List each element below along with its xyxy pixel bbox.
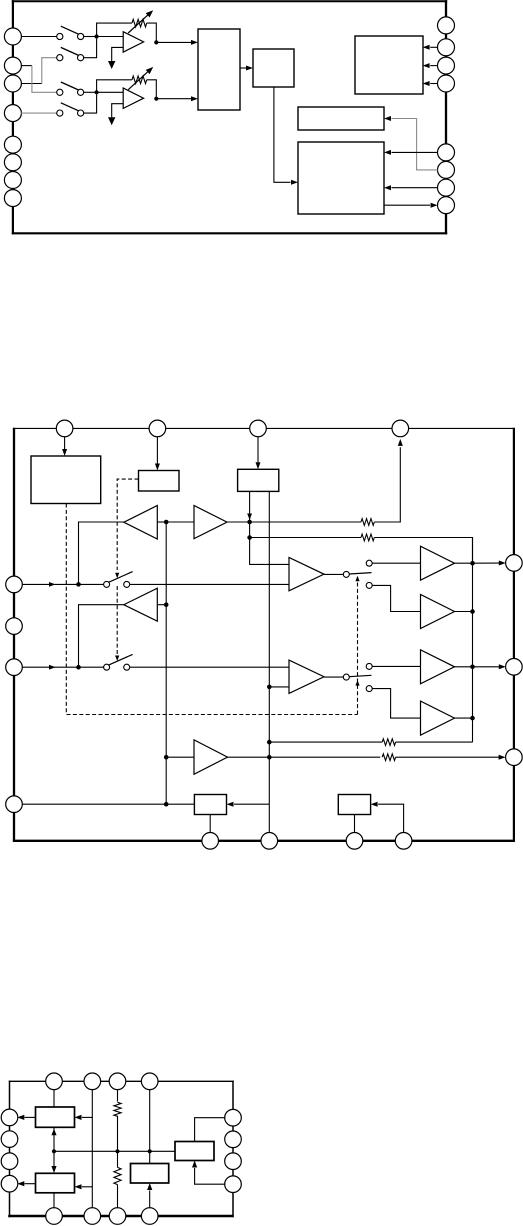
SPDT SW4 upper throw contact bbox=[366, 663, 372, 669]
wire U12 output through resistor R4 to pin R3 bbox=[228, 756, 381, 758]
pin R1 (diagram 3 right) bbox=[225, 1109, 242, 1126]
wire S4 to node N2 bbox=[83, 94, 96, 113]
wire pin T3 to block H bbox=[257, 437, 259, 463]
pin R2 (diagram 2 right) bbox=[506, 659, 523, 676]
block G bbox=[139, 471, 180, 492]
wire node N8 through resistor R1 to pin T4 bbox=[250, 521, 361, 523]
wire pin T3 to resistor R5 bbox=[117, 1089, 119, 1101]
wire to pin B2 bbox=[268, 804, 270, 833]
diagram 2: record/playback signal path border bbox=[13, 428, 15, 842]
pin B4 (diagram 3 bottom) bbox=[141, 1208, 158, 1225]
node N9 junction bbox=[164, 602, 169, 607]
line amp U4 bbox=[289, 660, 324, 693]
node N16 junction bbox=[267, 755, 272, 760]
node N20 junction bbox=[52, 1149, 56, 1153]
buffer U5 (left-pointing) bbox=[124, 506, 158, 540]
block B bbox=[253, 49, 294, 87]
switch S5 bbox=[104, 581, 110, 587]
wire pin T4 to block M bbox=[149, 1089, 151, 1163]
wire block K to pin L1 bbox=[25, 1116, 36, 1118]
pin R3 (diagram 1 right) bbox=[438, 57, 455, 74]
wire U4 output to SPDT pole bbox=[324, 676, 344, 678]
switch S2 bbox=[57, 55, 63, 61]
SPDT SW3 lever bbox=[349, 573, 371, 574]
wire block E to pin R8 bbox=[384, 204, 430, 206]
horizontal bus wire bbox=[54, 1150, 175, 1152]
node N6 junction bbox=[76, 665, 81, 670]
resistor R1 bbox=[361, 519, 374, 526]
pin L4 (diagram 2 left) bbox=[6, 796, 23, 813]
output amp U9 bbox=[421, 595, 455, 629]
wire block A to block B bbox=[240, 67, 246, 69]
ground arrow U1 bbox=[108, 61, 115, 69]
pin T1 (diagram 2 top) bbox=[56, 420, 73, 437]
wire block K to bus and block L bbox=[53, 1127, 55, 1167]
SPDT SW4 lower throw contact bbox=[366, 686, 372, 692]
arrow into block K bottom bbox=[51, 1129, 56, 1136]
wire pin R4 to block N bbox=[195, 1168, 226, 1184]
wire S6 to line amp U4 bbox=[130, 666, 289, 668]
arrow into pin T4 bbox=[398, 439, 403, 446]
wire U9 output to vertical feedback bus bbox=[455, 611, 473, 613]
pin B1 (diagram 3 bottom) bbox=[46, 1208, 63, 1225]
pin T2 (diagram 2 top) bbox=[149, 420, 166, 437]
wire pin L2 to switch S3 (crossover) bbox=[32, 66, 57, 93]
buffer U7 output loop bbox=[79, 605, 124, 668]
pin T1 (diagram 3 top) bbox=[46, 1073, 63, 1090]
pin R4 (diagram 1 right) bbox=[438, 75, 455, 92]
pin R1 (diagram 2 right) bbox=[506, 555, 523, 572]
vertical bus wire bbox=[165, 522, 167, 804]
node N14 junction bbox=[267, 685, 272, 690]
wire block H branch to block I bbox=[234, 803, 269, 805]
signal direction arrow row1 bbox=[49, 582, 56, 587]
wire pin T2 to block G bbox=[156, 437, 158, 464]
switch S6 bbox=[104, 664, 110, 670]
wire node N12 through resistor R2 to output node bbox=[250, 537, 361, 539]
pin R2 (diagram 1 right) bbox=[438, 39, 455, 56]
line amp U3 bbox=[289, 558, 324, 591]
arrow into block L bbox=[51, 1166, 56, 1173]
wire pin R7 to block E bbox=[392, 187, 438, 189]
node N7 junction bbox=[164, 520, 169, 525]
block N bbox=[175, 1142, 214, 1161]
SPDT SW3 pole contact bbox=[343, 571, 349, 577]
wire R3 to feedback bus bbox=[396, 741, 473, 743]
resistor R6 bbox=[114, 1167, 121, 1184]
pin R7 (diagram 1 right) bbox=[438, 179, 455, 196]
wire SW3 upper throw to output amp U8 bbox=[372, 562, 420, 564]
feedback wire VR2 to U2 output bbox=[147, 80, 157, 99]
block E bbox=[298, 142, 384, 214]
wire pin R5 to block E bbox=[392, 151, 438, 153]
switch S1 bbox=[57, 33, 63, 39]
wire block I to pin B1 bbox=[209, 815, 211, 833]
node N15 junction bbox=[267, 740, 272, 745]
pin R2 (diagram 3 right) bbox=[225, 1131, 242, 1148]
pin L2 (diagram 3 left) bbox=[1, 1131, 18, 1148]
pin L1 (diagram 3 left) bbox=[1, 1109, 18, 1126]
block K bbox=[36, 1107, 75, 1127]
block C bbox=[355, 36, 423, 94]
pin R3 (diagram 3 right) bbox=[225, 1153, 242, 1170]
wire R6 to pin B3 bbox=[117, 1185, 119, 1209]
node N8 junction bbox=[247, 520, 252, 525]
wire pin L3 to switch S6 bbox=[22, 666, 104, 668]
pin L3 (diagram 1 left) bbox=[4, 75, 21, 92]
node N12 junction bbox=[247, 535, 252, 540]
wire pin L2 stub bbox=[21, 65, 32, 67]
vertical feedback bus bbox=[472, 538, 474, 743]
node N11 junction bbox=[164, 802, 169, 807]
wire pin T2 to pin B2 bbox=[91, 1089, 93, 1208]
resistor R3 bbox=[382, 739, 395, 746]
feedback wire VR1 to U1 output bbox=[147, 23, 157, 42]
wire node N15 through resistor R3 bbox=[269, 741, 382, 743]
signal direction arrow row2 bbox=[49, 665, 56, 670]
wire SW4 upper throw to output amp U10 bbox=[372, 665, 420, 667]
pin R5 (diagram 1 right) bbox=[438, 144, 455, 161]
feedback wire U2 bbox=[97, 80, 132, 93]
wire pin L1 to switch S1 bbox=[21, 36, 57, 38]
op-amp U1 bbox=[123, 32, 143, 52]
wire node N7 to buffer U6 bbox=[166, 521, 194, 523]
variable resistor VR1 bbox=[132, 19, 147, 27]
pin L8 (diagram 1 left) bbox=[4, 190, 21, 207]
node N1 junction bbox=[95, 34, 99, 38]
wire pin L4 to block I bbox=[22, 803, 194, 805]
pin L1 (diagram 2 left) bbox=[6, 576, 23, 593]
pin L2 (diagram 2 left) bbox=[6, 618, 23, 635]
pin B4 (diagram 2 bottom) bbox=[395, 833, 412, 850]
wire block L to pin L4 bbox=[25, 1183, 36, 1185]
pin R1 (diagram 1 right) bbox=[438, 17, 455, 34]
wire block J to pin B3 bbox=[354, 815, 356, 833]
VR1 adjust arrow bbox=[128, 15, 148, 33]
buffer U6 (right-pointing) bbox=[194, 506, 227, 539]
wire pin R2 to block C bbox=[430, 46, 437, 48]
node N19 junction bbox=[470, 716, 475, 721]
pin L5 (diagram 1 left) bbox=[4, 136, 21, 153]
node N22 junction bbox=[148, 1149, 152, 1153]
node N21 junction bbox=[115, 1149, 119, 1153]
wire U5 input to node N7 bbox=[157, 521, 166, 523]
pin B3 (diagram 3 bottom) bbox=[109, 1208, 126, 1225]
wire U1 output to block A bbox=[156, 41, 191, 43]
resistor R5 bbox=[114, 1102, 121, 1116]
op-amp U2 bbox=[123, 88, 143, 108]
pin R8 (diagram 1 right) bbox=[438, 197, 455, 214]
wire node N13 to pin R1 bbox=[473, 562, 500, 564]
wire U10 output to node N18 bbox=[455, 666, 473, 668]
block L bbox=[36, 1173, 75, 1193]
buffer U7 (left-pointing) bbox=[124, 588, 158, 621]
wire R1 up to pin T4 bbox=[374, 447, 400, 522]
wire R2 to node N13 bbox=[374, 538, 472, 562]
VR2 adjust arrow bbox=[128, 71, 148, 89]
wire U6 output to node N8 bbox=[227, 521, 250, 523]
block A bbox=[198, 29, 240, 110]
wire pin R3 to block C bbox=[430, 65, 437, 67]
control arrow at switch S5 bbox=[115, 573, 119, 579]
dashed control line from block G bbox=[117, 479, 138, 570]
wire node N10 to amp U12 bbox=[166, 756, 194, 758]
buffer U5 output loop bbox=[79, 522, 124, 584]
switch S4 bbox=[57, 110, 63, 116]
pin R4 (diagram 3 right) bbox=[225, 1176, 242, 1193]
wire S3 to node N2 bbox=[83, 91, 96, 93]
node N17 junction bbox=[470, 609, 475, 614]
control arrow at SW3 bbox=[355, 576, 359, 582]
block H bbox=[238, 469, 279, 491]
diagram 1: input selector / recording amplifier block diagram border bbox=[12, 0, 14, 234]
pin T4 (diagram 3 top) bbox=[141, 1073, 158, 1090]
wire pin L4 to switch S4 bbox=[21, 112, 57, 114]
wire block H to node N8 and line amp U3 bbox=[250, 491, 289, 564]
block M bbox=[131, 1164, 169, 1184]
switch S3 bbox=[57, 89, 63, 95]
wire S1 to node N1 bbox=[83, 36, 96, 38]
wire block B to block E bbox=[274, 87, 291, 182]
dashed control line to REC/PB switches SW3 SW4 bbox=[357, 578, 359, 715]
control arrow at SW4 bbox=[355, 680, 359, 686]
pin T2 (diagram 3 top) bbox=[84, 1073, 101, 1090]
block F bbox=[31, 456, 101, 504]
pin L6 (diagram 1 left) bbox=[4, 154, 21, 171]
ground stub U2 bbox=[112, 104, 124, 118]
SPDT SW3 upper throw contact bbox=[366, 560, 372, 566]
branch to block K right side bbox=[82, 1116, 93, 1118]
wire SW3 lower throw to amp U9 bbox=[372, 585, 420, 611]
wire S2 to node N1 bbox=[83, 39, 96, 58]
ground arrow U2 bbox=[108, 117, 115, 125]
wire node N18 to pin R2 bbox=[473, 666, 500, 668]
pin T3 (diagram 2 top) bbox=[250, 420, 267, 437]
dashed control line from block F bbox=[66, 504, 357, 715]
pin B3 (diagram 2 bottom) bbox=[346, 833, 363, 850]
ground stub U1 bbox=[112, 47, 124, 61]
wire SW4 lower throw to amp U11 bbox=[372, 689, 420, 719]
pin L4 (diagram 1 left) bbox=[4, 105, 21, 122]
direction arrow on H output bbox=[247, 514, 252, 521]
wire pin L3 to switch S2 (crossover) bbox=[42, 58, 57, 84]
node N5 junction bbox=[76, 582, 81, 587]
resistor R4 bbox=[382, 754, 395, 761]
variable resistor VR2 bbox=[132, 76, 147, 84]
block D bbox=[298, 107, 384, 130]
output amp U8 bbox=[421, 546, 455, 580]
block J bbox=[338, 795, 370, 815]
wire S5 to line amp U3 bbox=[130, 583, 289, 585]
wire block L to pin B1 bbox=[53, 1193, 55, 1209]
pin L3 (diagram 2 left) bbox=[6, 659, 23, 676]
output amp U11 bbox=[421, 701, 455, 735]
wire node N14 to line amp U4 bbox=[269, 686, 289, 688]
control arrow at switch S6 bbox=[115, 656, 119, 662]
wire block N to pin R1 bbox=[195, 1118, 226, 1142]
output amp U10 bbox=[421, 650, 455, 684]
wire pin L1 to switch S5 bbox=[22, 583, 104, 585]
node N18 junction bbox=[470, 665, 475, 670]
node N4 junction (U2 output) bbox=[154, 97, 158, 101]
branch to block L right side bbox=[82, 1186, 93, 1188]
wire pin R6 to block D bbox=[392, 119, 438, 170]
node N10 junction bbox=[164, 755, 169, 760]
wire pin L3 stub bbox=[21, 83, 42, 85]
SPDT SW4 lever bbox=[349, 675, 371, 676]
wire R4 to pin R3 bbox=[396, 756, 499, 758]
wire U2 output to block A bbox=[156, 98, 191, 100]
SPDT SW3 lower throw contact bbox=[366, 582, 372, 588]
pin B2 (diagram 3 bottom) bbox=[84, 1208, 101, 1225]
pin B2 (diagram 2 bottom) bbox=[261, 833, 278, 850]
pin L3 (diagram 3 left) bbox=[1, 1153, 18, 1170]
wire U8 output to node N13 bbox=[455, 562, 473, 564]
node N2 junction bbox=[95, 90, 99, 94]
wire node N1 to op-amp U1 input bbox=[97, 36, 124, 38]
wire node N2 to op-amp U2 input bbox=[97, 91, 124, 93]
pin R6 (diagram 1 right) bbox=[438, 161, 455, 178]
wire pin B4 to block M bbox=[149, 1191, 151, 1209]
pin B1 (diagram 2 bottom) bbox=[202, 833, 219, 850]
wire R5 to R6 bbox=[117, 1116, 119, 1168]
pin L7 (diagram 1 left) bbox=[4, 172, 21, 189]
pin T3 (diagram 3 top) bbox=[109, 1073, 126, 1090]
wire block H to lower channel bbox=[268, 491, 270, 804]
wire pin B4 to block J bbox=[378, 804, 404, 833]
wire U7 input to vertical bus bbox=[157, 604, 166, 606]
pin L4 (diagram 3 left) bbox=[1, 1175, 18, 1192]
resistor R2 bbox=[361, 534, 374, 541]
dashed control line between S5 and S6 bbox=[116, 586, 118, 654]
wire pin T1 to block F bbox=[64, 437, 66, 450]
feedback wire U1 bbox=[97, 23, 132, 36]
pin L2 (diagram 1 left) bbox=[4, 57, 21, 74]
wire U3 output to SPDT pole bbox=[324, 573, 344, 575]
node N3 junction (U1 output) bbox=[154, 40, 158, 44]
monitor amp U12 bbox=[194, 740, 228, 774]
wire pin R4 to block C bbox=[430, 83, 437, 85]
wire U11 output to vertical feedback bus bbox=[455, 717, 473, 719]
pin R3 (diagram 2 right) bbox=[506, 749, 523, 766]
wire pin T1 to block K bbox=[53, 1089, 55, 1107]
SPDT SW4 pole contact bbox=[343, 674, 349, 680]
pin T4 (diagram 2 top) bbox=[392, 420, 409, 437]
block I bbox=[194, 795, 226, 815]
diagram 3: power supply / motor driver block diagram border bbox=[9, 1081, 11, 1218]
pin L1 (diagram 1 left) bbox=[4, 28, 21, 45]
node N13 junction bbox=[470, 561, 475, 566]
